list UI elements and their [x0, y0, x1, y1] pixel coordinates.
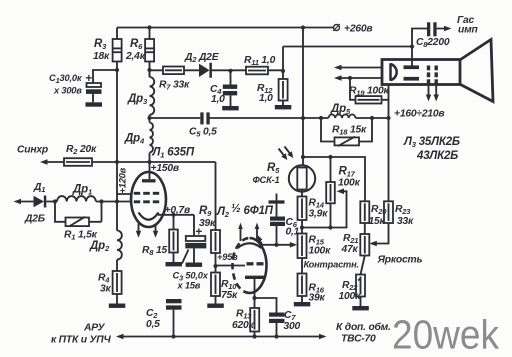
svg-text:620к: 620к [232, 320, 255, 331]
svg-text:R5: R5 [267, 162, 280, 175]
svg-text:39к: 39к [199, 218, 216, 229]
svg-text:39к: 39к [309, 293, 326, 304]
svg-text:1,0: 1,0 [211, 94, 225, 105]
svg-text:2,4к: 2,4к [125, 51, 146, 62]
svg-text:С5 0,5: С5 0,5 [189, 127, 217, 139]
svg-text:0,5: 0,5 [146, 319, 160, 330]
svg-text:43ЛК2Б: 43ЛК2Б [416, 150, 458, 162]
svg-text:Др3: Др3 [127, 93, 148, 106]
svg-text:300: 300 [284, 321, 301, 332]
svg-text:3,9к: 3,9к [309, 209, 329, 220]
svg-text:R3: R3 [94, 38, 107, 51]
svg-text:х 15в: х 15в [177, 281, 201, 291]
svg-text:Синхр: Синхр [17, 145, 48, 156]
svg-text:R8 15: R8 15 [142, 245, 167, 257]
svg-text:ТВС-70: ТВС-70 [341, 334, 376, 345]
svg-text:Л1 635П: Л1 635П [152, 147, 195, 160]
svg-text:18к: 18к [93, 51, 110, 62]
svg-text:33к: 33к [397, 216, 414, 227]
svg-text:Л2: Л2 [216, 206, 230, 219]
svg-text:Др1: Др1 [72, 184, 92, 197]
svg-text:+260в: +260в [344, 24, 372, 35]
svg-text:Др5: Др5 [330, 103, 351, 116]
svg-text:R18 15к: R18 15к [332, 125, 367, 137]
svg-text:Др2: Др2 [89, 240, 110, 253]
svg-text:Д1: Д1 [33, 182, 45, 194]
svg-text:1,0: 1,0 [259, 93, 273, 104]
svg-text:ФСК-1: ФСК-1 [253, 175, 280, 185]
svg-text:47к: 47к [341, 244, 359, 255]
svg-text:Л3 35ЛК2Б: Л3 35ЛК2Б [403, 136, 460, 149]
svg-text:+160÷210в: +160÷210в [394, 109, 444, 120]
svg-text:Яркость: Яркость [377, 255, 423, 266]
svg-text:R22*: R22* [342, 277, 361, 293]
svg-text:R11 1,0: R11 1,0 [244, 55, 276, 67]
svg-text:R2 20к: R2 20к [66, 144, 97, 156]
svg-text:Д2 Д2Е: Д2 Д2Е [184, 52, 220, 64]
svg-text:х 300в: х 300в [53, 86, 82, 96]
svg-text:+120в: +120в [118, 167, 128, 193]
svg-text:Др4: Др4 [124, 133, 145, 146]
svg-text:R6: R6 [130, 38, 143, 51]
svg-text:имп: имп [458, 25, 479, 36]
svg-text:100к: 100к [339, 291, 362, 302]
svg-text:Д2Б: Д2Б [24, 214, 45, 225]
svg-text:3к: 3к [100, 284, 112, 295]
svg-text:+0,7в: +0,7в [165, 205, 191, 216]
svg-text:½: ½ [231, 203, 240, 215]
svg-text:+: + [86, 73, 93, 85]
svg-text:АРУ: АРУ [83, 323, 106, 334]
svg-text:20wek: 20wek [392, 312, 499, 357]
svg-text:к ПТК и УПЧ: к ПТК и УПЧ [51, 335, 111, 346]
svg-text:75к: 75к [221, 290, 238, 301]
svg-text:С82200: С82200 [416, 37, 450, 49]
svg-text:100к: 100к [338, 178, 361, 189]
svg-text:6Ф1П: 6Ф1П [244, 205, 274, 217]
svg-text:100к: 100к [309, 246, 332, 257]
svg-text:R23: R23 [395, 204, 411, 216]
svg-text:К доп. обм.: К доп. обм. [336, 321, 391, 333]
svg-text:Контрастн.: Контрастн. [304, 260, 359, 270]
svg-text:R7 33к: R7 33к [159, 80, 190, 92]
svg-text:R9: R9 [199, 205, 212, 218]
svg-text:С130,0к: С130,0к [49, 73, 83, 85]
svg-text:+150в: +150в [151, 163, 179, 174]
svg-text:15к: 15к [369, 216, 386, 227]
svg-text:R19 100к: R19 100к [349, 86, 390, 98]
